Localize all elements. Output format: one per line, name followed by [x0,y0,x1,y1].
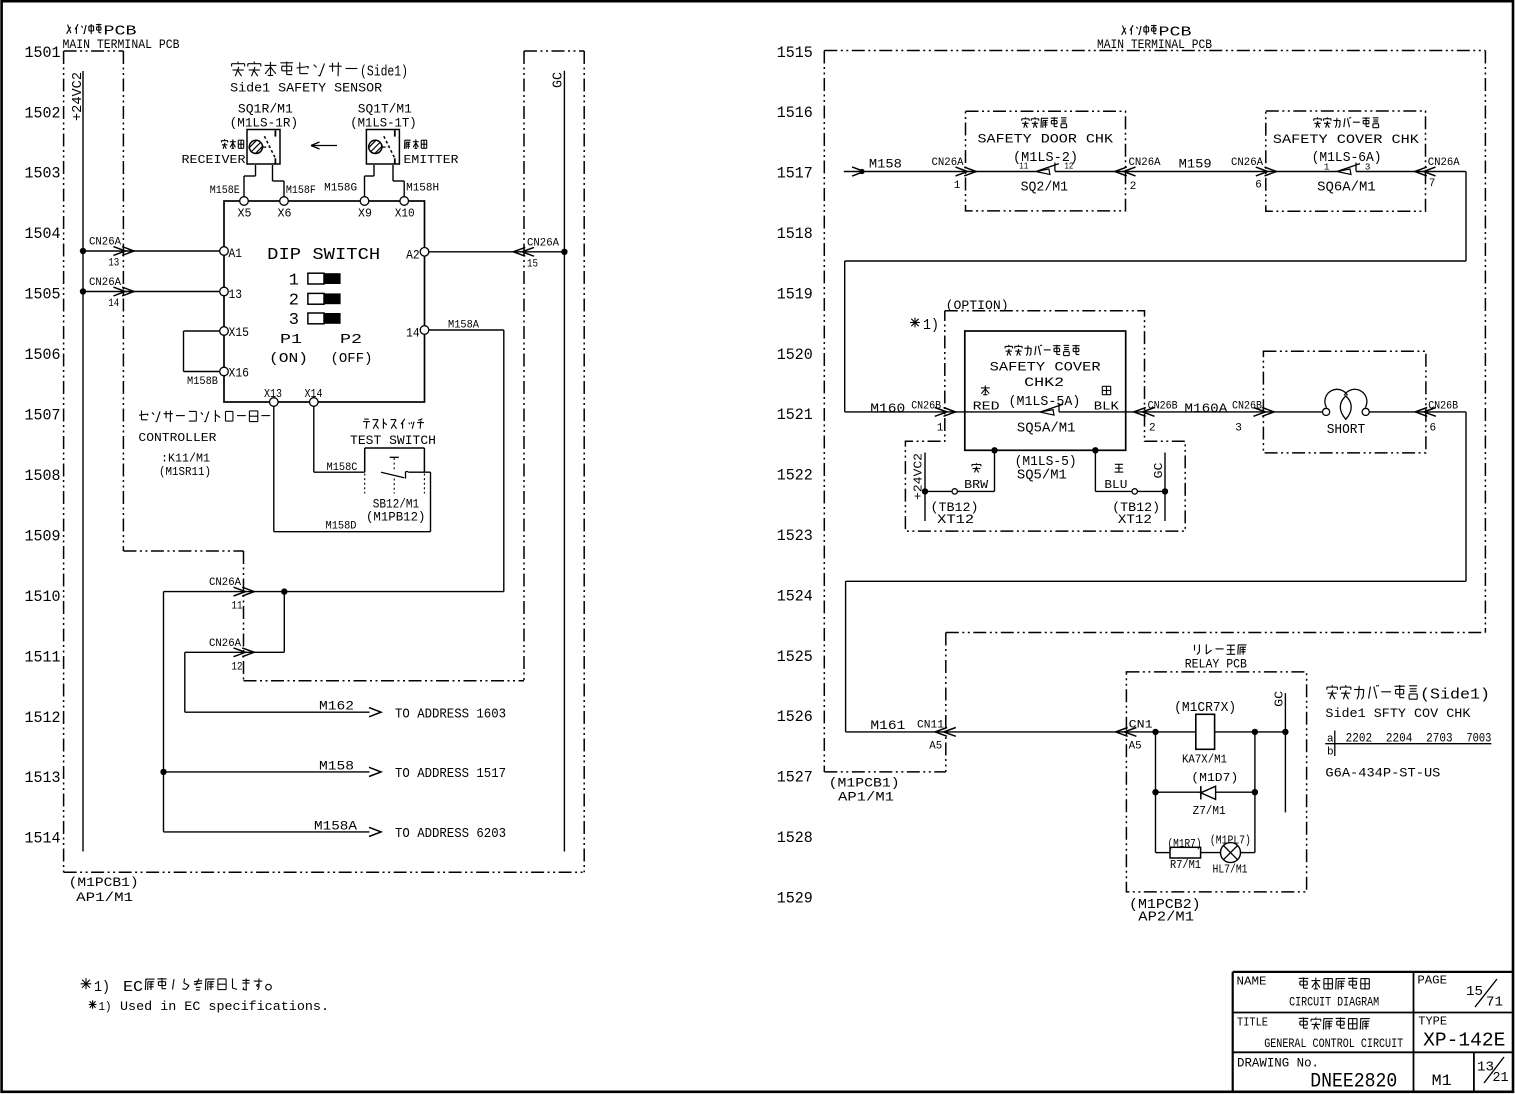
svg-text:71: 71 [1486,994,1503,1010]
svg-text:(M1D7): (M1D7) [1191,771,1238,785]
label P1 P2 (ON) (OFF) [269,332,373,367]
junction dot [160,769,166,775]
svg-text:XT12: XT12 [1118,513,1152,527]
svg-text:1: 1 [954,180,961,192]
svg-text:DNEE2820: DNEE2820 [1310,1071,1397,1094]
wire M158H emitter lead to X10 [393,165,439,197]
svg-text:1): 1) [94,980,110,996]
svg-text:CN26B: CN26B [1148,401,1178,413]
wire M158G emitter lead to X9 [324,165,374,197]
emitter sensor SQ1T/M1 symbol [366,130,399,165]
svg-text:M158G: M158G [324,183,357,195]
svg-text:A5: A5 [1129,741,1142,753]
svg-text:1502: 1502 [25,104,61,122]
svg-text:2: 2 [1149,423,1156,435]
svg-text:3: 3 [1235,423,1242,435]
svg-text:1501: 1501 [25,44,61,62]
svg-text:SQ1T/M1: SQ1T/M1 [358,101,412,116]
svg-text:TYPE: TYPE [1418,1016,1447,1029]
svg-text:M160A: M160A [1184,401,1227,416]
connector CN26B-2 [1126,401,1178,435]
svg-text:A2: A2 [406,248,420,262]
net +24VC2 (TB12) [912,453,995,522]
resistor R7/M1 [1156,837,1202,872]
svg-text:1515: 1515 [777,44,813,62]
svg-text:X15: X15 [229,326,250,340]
terminal X5 [238,197,252,221]
svg-text:TO ADDRESS 1517: TO ADDRESS 1517 [395,766,506,782]
svg-text:(M1PL7): (M1PL7) [1210,833,1251,847]
svg-text:CONTROLLER: CONTROLLER [138,432,216,445]
svg-text:RECEIVER: RECEIVER [182,154,246,167]
svg-text:M162: M162 [319,699,354,714]
wire CN26A-11 [164,577,504,613]
svg-text:SAFETY COVER: SAFETY COVER [990,359,1101,374]
svg-text:1517: 1517 [777,165,813,183]
terminal X14 [305,388,323,407]
svg-text:CN1: CN1 [1129,719,1153,731]
svg-text:DIP SWITCH: DIP SWITCH [267,246,380,265]
note EC specifications [81,978,329,1014]
svg-text:M158F: M158F [286,185,316,197]
wire SQ6A output to M160 [845,172,1466,412]
svg-text:M158A: M158A [448,320,479,332]
svg-text:(M1LS-5A): (M1LS-5A) [1009,395,1081,410]
junction dot on GC [561,249,567,255]
terminal A2 [406,248,429,263]
label RECEIVER [182,139,246,167]
svg-text:M161: M161 [870,718,905,733]
connector CN11-A5 [917,719,956,752]
terminal A1 [220,247,242,261]
diode Z7/M1 [1152,771,1258,818]
terminal XT12 left (TB12) [931,463,989,527]
title block PAGE cell [1417,974,1503,1010]
svg-text:GC: GC [1152,463,1166,479]
junction dot [80,248,86,254]
svg-text:SB12/M1: SB12/M1 [373,498,420,512]
svg-text:1526: 1526 [777,708,813,726]
svg-text:PAGE: PAGE [1417,974,1447,987]
svg-text:1511: 1511 [25,648,61,666]
svg-text:1): 1) [99,1000,112,1014]
svg-text:12: 12 [1064,161,1073,172]
svg-text:RELAY PCB: RELAY PCB [1185,658,1248,672]
connector CN26B-6 [1415,401,1458,435]
svg-text:X14: X14 [305,388,323,401]
svg-text:SAFETY DOOR CHK: SAFETY DOOR CHK [978,132,1114,147]
svg-text:SQ5A/M1: SQ5A/M1 [1017,421,1076,436]
terminal XT12 right (TB12) [1104,464,1160,527]
wire M160 CN26B-1 [845,401,965,435]
wire M158A from terminal 14 [429,320,504,592]
svg-text:CIRCUIT DIAGRAM: CIRCUIT DIAGRAM [1289,995,1379,1009]
contact SQ6A/M1 [1337,163,1360,175]
svg-text:(OPTION): (OPTION) [946,299,1009,313]
dip switch 2 [289,292,341,311]
svg-text:12: 12 [232,661,243,673]
svg-text:21: 21 [1493,1070,1509,1086]
svg-text:M158B: M158B [187,376,218,388]
svg-text:A1: A1 [229,247,243,261]
terminal X6 [278,197,292,221]
svg-text:CN26B: CN26B [1232,401,1262,413]
svg-text:CN11: CN11 [917,719,944,731]
svg-text:1): 1) [923,317,939,334]
wire CN26A-13 to A1 [83,237,220,270]
svg-text:(ON): (ON) [269,351,308,367]
relay coil KA7X/M1 [1126,701,1285,767]
connector CN26A-7 [1415,157,1460,190]
svg-text:1520: 1520 [777,346,813,364]
svg-text:6: 6 [1430,423,1437,435]
svg-text:TITLE: TITLE [1237,1017,1268,1030]
label M1PCB1 AP1/M1 (right) [829,775,900,804]
svg-text:(OFF): (OFF) [331,351,373,367]
contact SQ2/M1 [1036,163,1059,175]
svg-text:(M1PCB1): (M1PCB1) [829,775,900,790]
svg-text:TO ADDRESS 1603: TO ADDRESS 1603 [395,707,506,723]
wire M158A to address 6203 [164,818,507,842]
svg-text:CN26A: CN26A [209,638,241,650]
title block [1233,972,1513,1092]
net GC (relay) [1273,691,1287,813]
svg-text:1529: 1529 [777,889,813,907]
svg-text:15: 15 [527,258,538,270]
terminal X15 [220,326,249,340]
svg-text:11: 11 [232,601,243,613]
svg-text:1507: 1507 [25,407,61,425]
svg-text:DRAWING No.: DRAWING No. [1237,1057,1319,1071]
svg-text:M158: M158 [869,157,902,172]
svg-text:14: 14 [406,327,420,341]
svg-text:GC: GC [552,72,567,88]
svg-text:G6A-434P-ST-US: G6A-434P-ST-US [1325,767,1440,781]
receiver sensor SQ1R/M1 symbol [247,130,280,165]
wire M159 [1126,157,1277,192]
svg-text:Side1 SFTY COV CHK: Side1 SFTY COV CHK [1325,707,1471,721]
svg-text:M159: M159 [1179,157,1212,172]
terminal X13 [264,388,282,407]
wire down to M158/M158A [163,592,165,832]
wire M158 to address 1517 [164,758,507,782]
contact SQ5A/M1 [1040,403,1063,415]
wire link 11-12 [283,592,285,653]
svg-text:1510: 1510 [25,588,61,606]
terminal 14 (right) [406,326,429,341]
svg-text:(M1R7): (M1R7) [1168,837,1202,851]
svg-text:(Side1): (Side1) [1420,688,1490,704]
label SQ1R/M1 (M1LS-1R) [230,101,299,130]
SQ5/M1 leads to terminals [991,447,1098,491]
svg-text:M158: M158 [319,758,354,773]
svg-text:(M1PB12): (M1PB12) [366,511,426,525]
relay PCB box M1PCB2 [1126,644,1306,892]
svg-text:M1: M1 [1432,1072,1452,1090]
svg-text:Used in EC specifications.: Used in EC specifications. [120,1000,329,1014]
wire M158E receiver lead to X5 [210,165,256,197]
indicator lamp HL7/M1 [1201,833,1255,876]
svg-text:M160: M160 [870,401,905,416]
wire M158F receiver lead to X6 [273,165,316,197]
svg-text:MAIN TERMINAL PCB: MAIN TERMINAL PCB [63,38,180,52]
svg-text:HL7/M1: HL7/M1 [1213,863,1248,877]
svg-text:TO ADDRESS 6203: TO ADDRESS 6203 [395,826,506,842]
svg-text:1524: 1524 [777,587,813,605]
label Side1 SAFETY SENSOR [230,62,408,96]
label MAIN TERMINAL PCB (right) [1097,25,1212,52]
net GC vertical wire (left) [552,71,567,852]
svg-text:X5: X5 [238,208,252,221]
controller box K11/M1 (DIP SWITCH unit) [224,201,425,402]
net +24VC2 vertical wire [71,71,86,852]
svg-text:M158D: M158D [326,521,357,533]
M1PCB1 right boundary dash-dot (MAIN TERMINAL PCB) [824,51,1485,772]
svg-text:1522: 1522 [777,467,813,485]
svg-text:1503: 1503 [25,165,61,183]
M1PCB1 left boundary dash-dot (MAIN TERMINAL PCB) [64,51,585,872]
row numbers 1515-1529 [777,44,813,908]
svg-text:NAME: NAME [1237,975,1267,988]
svg-text:1523: 1523 [777,527,813,545]
svg-text:KA7X/M1: KA7X/M1 [1182,753,1227,767]
dip switch 3 [289,311,341,330]
wire down to M162 [184,652,186,712]
svg-text:3: 3 [289,311,299,330]
svg-text:1519: 1519 [777,285,813,303]
svg-text:1513: 1513 [25,769,61,787]
svg-text:b: b [1327,747,1334,759]
svg-text:(M1SR11): (M1SR11) [159,466,211,479]
dip switch 1 [289,272,341,291]
title block TYPE cell [1418,1016,1505,1052]
svg-text:X6: X6 [278,208,292,221]
svg-text:11: 11 [1019,161,1028,172]
svg-text:CN26A: CN26A [932,157,964,169]
title block sheet 13/21 cell [1477,1057,1509,1086]
svg-text:(M1LS-6A): (M1LS-6A) [1312,151,1382,166]
wire X14 down to M158C [314,406,365,474]
svg-text:SQ2/M1: SQ2/M1 [1021,180,1069,195]
svg-text:R7/M1: R7/M1 [1170,858,1201,872]
svg-text:(Side1): (Side1) [360,64,408,81]
svg-text:1516: 1516 [777,104,813,122]
svg-text:MAIN TERMINAL PCB: MAIN TERMINAL PCB [1097,38,1212,52]
title block TITLE cell [1237,1017,1404,1052]
terminal X9 [358,197,372,221]
svg-text:1527: 1527 [777,769,813,787]
svg-text:XT12: XT12 [937,513,974,527]
svg-text:M158C: M158C [327,462,358,474]
svg-text:1: 1 [289,272,299,291]
svg-text:CN26A: CN26A [527,237,559,249]
svg-text:A5: A5 [929,741,942,753]
svg-text:1: 1 [937,423,944,435]
svg-text:AP1/M1: AP1/M1 [838,790,894,805]
svg-text:SQ6A/M1: SQ6A/M1 [1317,181,1376,196]
svg-text:Side1 SAFETY SENSOR: Side1 SAFETY SENSOR [230,82,383,96]
junction dot [80,288,86,294]
wire X13 down to M158D [273,406,275,531]
svg-text:XP-142E: XP-142E [1423,1030,1505,1052]
svg-text:2: 2 [289,292,299,311]
test switch SB12/M1 [350,419,436,525]
wire relay branches [1156,732,1255,853]
option boundary dash-dot [905,299,1185,531]
svg-text:BRW: BRW [964,479,988,492]
svg-text:1518: 1518 [777,225,813,243]
label CONTROLLER :K11/M1 (M1SR11) [138,410,270,479]
svg-text:X13: X13 [264,388,282,401]
svg-text:CHK2: CHK2 [1024,375,1064,390]
wire CN26A-12 [185,638,284,674]
svg-text:(M1CR7X): (M1CR7X) [1174,701,1236,716]
safety cover switch SQ6A/M1 box [1266,111,1426,211]
svg-text:AP2/M1: AP2/M1 [1138,911,1194,926]
svg-text:P1: P1 [280,332,302,348]
svg-text:1509: 1509 [25,527,61,545]
svg-text:GC: GC [1273,691,1287,707]
svg-text:SQ5/M1: SQ5/M1 [1017,468,1067,483]
svg-text:X16: X16 [229,366,250,380]
svg-text:1512: 1512 [25,709,61,727]
svg-text:AP1/M1: AP1/M1 [76,890,133,905]
svg-text:X10: X10 [395,208,415,221]
svg-text:14: 14 [108,298,119,310]
svg-text:1528: 1528 [777,829,813,847]
label M1PCB2 AP2/M1 [1129,898,1201,926]
connector CN26A-2 [1115,157,1161,193]
svg-text:+24VC2: +24VC2 [71,72,86,121]
terminal 13 [220,287,242,302]
svg-text:1505: 1505 [25,286,61,304]
svg-text:TEST SWITCH: TEST SWITCH [350,434,436,448]
wire M158D test switch return [274,472,431,532]
label M1PCB1 AP1/M1 (left) [69,875,139,905]
light beam arrow [311,142,337,149]
svg-text:X9: X9 [358,208,372,221]
label Side1 SFTY COV CHK [1325,685,1490,721]
svg-text:SAFETY COVER CHK: SAFETY COVER CHK [1273,132,1419,147]
svg-text:SHORT: SHORT [1327,422,1366,438]
svg-text:1506: 1506 [25,346,61,364]
label EMITTER [404,139,459,167]
wire SHORT output to M161 [846,412,1466,732]
svg-text:CN26A: CN26A [89,277,121,289]
svg-text:GENERAL CONTROL CIRCUIT: GENERAL CONTROL CIRCUIT [1264,1037,1403,1051]
svg-text:SQ1R/M1: SQ1R/M1 [238,101,293,116]
row numbers 1501-1514 [25,44,61,848]
svg-text:1514: 1514 [25,830,61,848]
svg-text:1521: 1521 [777,406,813,424]
svg-text:(M1LS-1T): (M1LS-1T) [350,116,417,131]
svg-text:CN26A: CN26A [1428,157,1460,169]
terminal X10 [395,197,415,221]
label SQ1T/M1 (M1LS-1T) [350,101,417,130]
svg-text:15: 15 [1466,984,1483,1000]
svg-text:EC: EC [123,980,143,996]
connector CN1-A5 [1116,719,1153,752]
junction dots relay row [1152,729,1288,735]
svg-text:BLU: BLU [1104,479,1127,492]
wire CN26A-14 to 13 [83,277,220,310]
svg-text:2: 2 [1130,181,1137,193]
svg-text:7: 7 [1429,178,1436,190]
wire A2 to CN26A-15 and GC [429,237,565,270]
svg-text:CN26A: CN26A [1129,157,1161,169]
svg-text:1525: 1525 [777,648,813,666]
terminal X16 [220,366,249,380]
svg-text:CN26A: CN26A [209,577,241,589]
svg-text:13: 13 [229,288,243,302]
svg-text:P2: P2 [340,332,362,348]
svg-text:M158A: M158A [314,818,357,833]
svg-text:13: 13 [108,258,119,270]
SHORT jumper box [1263,351,1426,453]
title block DRAWING cell [1237,1057,1397,1094]
safety cover switch 2 SQ5A/M1 box [965,331,1126,450]
wire M162 to address 1603 [185,699,506,723]
svg-text:EMITTER: EMITTER [404,154,459,167]
wire M158B loop X15-X16 [184,331,220,388]
svg-text:(M1LS-1R): (M1LS-1R) [230,116,299,131]
junction dot [281,588,287,594]
svg-text:M158H: M158H [406,183,439,195]
svg-text:6: 6 [1255,179,1262,191]
wire M158 row 1517 [844,157,976,192]
svg-text:1504: 1504 [25,225,61,243]
svg-text:CN26B: CN26B [1428,401,1458,413]
svg-text:(M1PCB1): (M1PCB1) [69,875,139,890]
wire M160A CN26B-3 [1145,401,1275,435]
svg-text:CN26A: CN26A [89,237,121,249]
svg-text::K11/M1: :K11/M1 [161,453,210,466]
svg-text:CN26B: CN26B [911,401,941,413]
relay pin table a/b [1325,731,1491,759]
svg-text:M158E: M158E [210,185,240,197]
SHORT link symbol [1323,389,1370,438]
svg-text:1508: 1508 [25,467,61,485]
label MAIN TERMINAL PCB (left) [63,24,180,52]
svg-text:Z7/M1: Z7/M1 [1193,804,1226,818]
wire M161 row 1526 [846,718,1127,733]
safety door switch SQ2/M1 box [966,111,1126,211]
title block NAME cell [1237,975,1380,1009]
net GC (TB12) [1095,453,1168,522]
